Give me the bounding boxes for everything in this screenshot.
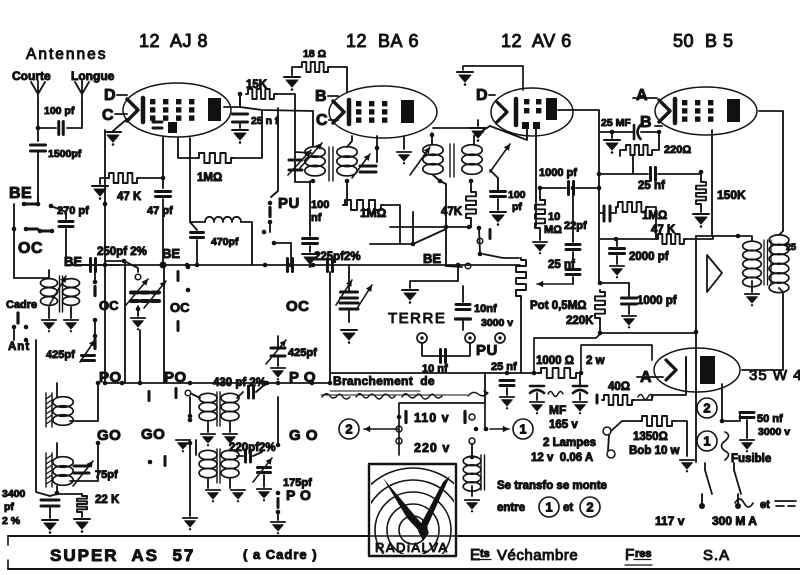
ground ecap2: [573, 402, 587, 414]
coil T2 primary: [423, 145, 443, 156]
svg-text:PU: PU: [278, 195, 300, 212]
coil MW primary: [199, 393, 217, 402]
wire cadre gnd1: [48, 307, 50, 318]
ground 425pf middle: [271, 368, 285, 380]
wire 25nf avc right: [658, 174, 701, 180]
wire 2000pf top: [616, 239, 618, 246]
junction PO bus 190: [188, 381, 193, 386]
wire 175pf down: [263, 475, 265, 487]
circled 2 selector: [339, 419, 359, 439]
contact r3: [93, 334, 98, 339]
contact BE3 b: [185, 263, 190, 268]
ground ecap1: [530, 402, 544, 414]
ground 3400pf: [42, 520, 58, 534]
svg-text:OC: OC: [170, 300, 190, 315]
capacitor 1000pf af: [622, 298, 637, 304]
contact open 110: [396, 426, 402, 432]
capacitor 25nf het: [500, 381, 514, 386]
contact bar r1: [93, 287, 96, 296]
ground V2 cathode: [397, 152, 411, 164]
wire x581 up and to V5: [581, 345, 652, 373]
svg-text:12 AV 6: 12 AV 6: [501, 31, 572, 51]
svg-text:MΩ: MΩ: [544, 224, 562, 236]
svg-text:SUPER AS 57: SUPER AS 57: [50, 546, 195, 565]
contact bar BE: [27, 203, 36, 206]
ground bottom left mid: [183, 518, 197, 530]
capacitor 220pf: [246, 450, 251, 462]
wire 270pf down to bus: [65, 229, 67, 265]
electrolytic filter 2: [573, 385, 587, 388]
contact bar r2: [93, 340, 96, 349]
junction det row b: [467, 225, 472, 230]
contact BE b: [36, 202, 41, 207]
wire coil left: [190, 208, 205, 222]
wire 47K link: [600, 238, 656, 240]
wire 1M left: [343, 204, 347, 206]
contact go a: [188, 418, 193, 423]
wire V3 diode to detector: [535, 129, 537, 226]
contact 110 d: [484, 427, 489, 432]
tube V1 12AJ8: [123, 83, 231, 137]
contact det top: [477, 226, 482, 231]
wire V1 to 1M: [178, 138, 197, 158]
resistor 1M AF: [343, 200, 383, 210]
wire pin C: [329, 119, 338, 121]
ground 175pf: [257, 489, 271, 501]
wire terre gnd to bus: [410, 267, 458, 288]
wire to 117v term: [701, 494, 703, 503]
wire 220pf right: [253, 452, 262, 456]
ground 150K: [693, 214, 709, 228]
coil OT secondary: [743, 241, 762, 251]
wire antLW right up: [70, 443, 98, 481]
wire po-go link: [189, 397, 191, 420]
contact open 220 a: [396, 438, 402, 444]
trimmer arrow gang b: [144, 281, 166, 308]
wire BE stub: [37, 196, 39, 204]
junction det row a: [444, 225, 449, 230]
contact OC a: [12, 227, 17, 232]
circled 1 right: [697, 431, 717, 451]
junction AVC: [411, 242, 416, 247]
ground top near V3: [457, 72, 473, 86]
svg-text:E: E: [470, 547, 480, 564]
wire 3400 gnd lead: [49, 508, 51, 518]
junction cathode node: [657, 130, 662, 135]
wire AVC rail: [370, 243, 413, 245]
contact bar po left: [148, 392, 151, 401]
wire bus x105 lower: [104, 204, 106, 383]
svg-text:Fusible: Fusible: [731, 453, 771, 465]
svg-text:MF: MF: [549, 403, 566, 417]
junction gang left: [122, 259, 127, 264]
RADIALVA logo box: [369, 464, 456, 556]
svg-text:1000 pf: 1000 pf: [637, 295, 677, 307]
title band bottom line: [8, 568, 800, 570]
wire V1 grid lead: [162, 137, 164, 188]
svg-text:47 K: 47 K: [117, 191, 142, 203]
underline Fres full: [625, 564, 652, 566]
wire PO row bus: [105, 382, 330, 384]
wire 40ohm right: [634, 395, 652, 400]
capacitor 225pf a: [288, 259, 293, 272]
wire contact to MW coil: [192, 394, 200, 398]
wire 22K top: [57, 493, 82, 495]
svg-text:Longue: Longue: [71, 69, 115, 83]
capacitor 3400pf: [41, 500, 59, 506]
svg-text:100 pf: 100 pf: [44, 105, 75, 117]
svg-text:300 M A: 300 M A: [712, 514, 757, 528]
ground OT secondary: [745, 294, 759, 306]
ground 100nf: [302, 254, 318, 268]
wire 1000pf af gnd: [628, 306, 630, 314]
svg-text:22 K: 22 K: [95, 494, 120, 506]
wire vertical x164: [163, 268, 165, 383]
resistor 47K af: [656, 234, 686, 244]
contact det bottom: [478, 252, 483, 257]
wire 25nf down: [572, 277, 574, 284]
wire left bus: [13, 204, 15, 278]
junction T1 bottom right: [345, 179, 350, 184]
junction AF out: [598, 331, 603, 336]
contact right b: [186, 288, 191, 293]
ground 22K: [74, 519, 90, 533]
wire T2 top to V2: [431, 133, 433, 145]
wire 1M right: [383, 205, 400, 244]
contact right a: [186, 265, 191, 270]
wire 100nf gnd lead: [309, 246, 311, 252]
trimmer arrow T2 primary: [410, 147, 430, 175]
contact PU c: [262, 230, 267, 235]
junction PO bus 312: [310, 381, 315, 386]
svg-text:PU: PU: [476, 342, 498, 359]
junction x105 BE: [103, 202, 108, 207]
label Bar squiggle: [638, 395, 653, 400]
wire 1350 right: [674, 421, 687, 456]
wire 50nf top lead: [740, 411, 747, 413]
circled 1 selector: [513, 419, 533, 439]
wire 10nf down: [462, 321, 464, 330]
junction fuse node: [720, 419, 725, 424]
wire to loop coil: [14, 277, 49, 279]
contact bar det: [489, 230, 492, 239]
junction 150K top: [699, 170, 704, 175]
junction det right: [597, 186, 602, 191]
junction 15K node: [238, 92, 243, 97]
capacitor 25nf det: [566, 270, 580, 275]
wire to PU switch: [274, 242, 291, 244]
svg-text:Ant: Ant: [8, 341, 30, 353]
wire avc cap lead: [599, 212, 604, 214]
contact ant: [24, 338, 29, 343]
contact bar right c: [177, 322, 180, 331]
circled 2 right: [697, 398, 717, 418]
capacitor gang 2: [340, 303, 358, 309]
underline res: [634, 559, 651, 561]
svg-text:40Ω: 40Ω: [608, 381, 630, 393]
svg-text:1MΩ: 1MΩ: [642, 210, 667, 222]
svg-text:BE: BE: [64, 254, 82, 269]
wire col down: [94, 320, 96, 334]
coil T1 secondary: [337, 147, 357, 158]
DC symbol: [775, 501, 796, 506]
capacitor 1500pf: [31, 145, 46, 151]
terminal TERRE: [417, 333, 427, 343]
contact PU b: [268, 220, 273, 225]
wire 220ohm lead to avc line: [632, 156, 634, 174]
resistor 15K: [246, 89, 276, 99]
svg-text:470pf: 470pf: [211, 236, 239, 248]
ground 100pf: [490, 212, 506, 226]
wire 47K right: [686, 236, 713, 239]
wire cathode to ground: [113, 119, 127, 131]
resistor 22K: [77, 494, 87, 514]
contact OC b: [24, 227, 29, 232]
coil autotransfo: [463, 456, 481, 465]
arrow to circled 2: [364, 428, 398, 430]
resistor 47K vertical: [466, 190, 476, 220]
wire anode line to IF1: [240, 107, 313, 111]
svg-text:B: B: [315, 88, 327, 105]
capacitor 25nf avc: [651, 168, 656, 181]
ground 18 ohm: [284, 77, 300, 91]
coil OT primary: [769, 235, 789, 245]
wire selector to bus: [484, 373, 486, 403]
contact 110 a: [397, 415, 402, 420]
capacitor gang 1: [341, 292, 358, 298]
capacitor 100pf: [59, 122, 64, 135]
wire det down: [539, 188, 541, 198]
wire terre-pu link: [422, 343, 470, 356]
wire 220 left down: [620, 150, 624, 156]
wire cap to coil: [190, 222, 197, 230]
resistor 40 ohm: [602, 395, 634, 405]
trimmer arrow cadre: [50, 276, 66, 304]
wire node down: [239, 94, 241, 107]
wire 100nf top: [309, 196, 311, 236]
wire 1500pf to BE contact: [37, 152, 39, 203]
tube V3 12AV6: [491, 88, 573, 136]
junction osc node: [161, 176, 166, 181]
svg-text:1350Ω: 1350Ω: [633, 431, 668, 443]
junction avc: [597, 172, 602, 177]
junction bus265 163: [161, 263, 166, 268]
contact bar right a: [177, 272, 180, 281]
wire T1 primary down: [309, 181, 311, 196]
svg-text:425pf: 425pf: [46, 349, 75, 361]
ground 2000pf: [610, 266, 624, 278]
resistor 1M avc: [616, 202, 648, 212]
wire V3 anode down: [558, 110, 599, 283]
wire V5 cathode down: [721, 384, 723, 420]
wire cap to ground: [239, 122, 241, 128]
svg-text:D: D: [476, 87, 488, 104]
svg-text:220Ω: 220Ω: [664, 144, 691, 156]
svg-text:10nf: 10nf: [474, 303, 497, 315]
contact bar 40ohm: [596, 395, 599, 403]
wire cadre gnd2: [70, 307, 72, 318]
wire right vertical bus lower: [695, 332, 697, 462]
contact go mid: [148, 460, 153, 465]
wire 18ohm to V2 grid: [330, 67, 347, 92]
wire to 50nf: [722, 412, 740, 421]
contact cadre a: [12, 325, 17, 330]
ground TERRE: [402, 290, 418, 304]
wire 250pf left: [66, 264, 88, 266]
svg-text:1000 Ω: 1000 Ω: [536, 355, 574, 367]
svg-text:100: 100: [311, 199, 329, 211]
junction gang bottom: [136, 307, 141, 312]
wire pin B lead: [655, 125, 662, 127]
wire 10nf up: [462, 286, 464, 302]
ground po4: [271, 522, 285, 534]
svg-text:F: F: [625, 547, 634, 564]
svg-text:OC: OC: [286, 298, 310, 315]
junction bus265 265: [263, 263, 268, 268]
junction 2000pf: [614, 237, 619, 242]
junction det: [538, 186, 543, 191]
junction PO bus 330: [328, 381, 333, 386]
wire AVC diagonal to det row: [413, 229, 446, 244]
capacitor 270pf: [59, 222, 73, 227]
svg-text:OC: OC: [18, 240, 43, 257]
svg-text:25 MF: 25 MF: [601, 117, 631, 129]
wire PU link to bus: [290, 243, 292, 265]
contact OC d: [50, 229, 55, 234]
ground 1350: [680, 460, 694, 472]
svg-text:S.A: S.A: [703, 547, 730, 564]
wire to junction: [38, 127, 56, 129]
ground under V1: [105, 132, 121, 146]
wire V2 cathode lead: [403, 136, 405, 149]
capacitor 430pf: [249, 386, 254, 398]
contact 110 c: [474, 427, 479, 432]
wire down to 1500pf: [37, 128, 39, 141]
capacitor 47pf: [156, 192, 171, 197]
capacitor 470pf: [191, 233, 204, 238]
svg-text:C: C: [316, 112, 328, 129]
svg-text:35 W 4: 35 W 4: [749, 367, 800, 384]
capacitor 425pf middle: [271, 348, 285, 356]
wire pin C: [115, 113, 127, 115]
wire 220K output to bus jog: [534, 333, 696, 373]
wire anode line to PU switch: [271, 108, 278, 197]
wire OT sec top: [738, 236, 752, 241]
wire gang top: [348, 265, 350, 290]
junction PO bus 105: [103, 381, 108, 386]
wire right po-go: [277, 397, 279, 445]
contact open po: [185, 390, 191, 396]
wire V1 lead to coil: [189, 138, 191, 208]
svg-text:12 BA 6: 12 BA 6: [346, 31, 419, 51]
capacitor 175pf: [258, 468, 271, 473]
wire 220 to node: [654, 145, 659, 150]
svg-text:pf: pf: [4, 501, 14, 513]
wire 1M right down: [648, 207, 656, 239]
svg-text:100: 100: [508, 189, 526, 201]
wire trimmer to 100pf: [490, 170, 498, 190]
resistor 220 ohm: [624, 145, 654, 155]
wire MW gnd2 lead: [229, 422, 231, 432]
wire to 300ma term: [737, 494, 739, 503]
svg-text:117 v: 117 v: [655, 514, 685, 528]
svg-text:425pf: 425pf: [288, 347, 317, 359]
coil LW primary: [199, 450, 217, 459]
contact open det: [477, 238, 483, 244]
wire primary gnd lead: [471, 486, 473, 496]
svg-text:25 n f: 25 n f: [251, 115, 279, 127]
coil LW secondary: [221, 450, 239, 459]
ground cadre 2: [64, 320, 78, 332]
contact open gang: [135, 274, 141, 280]
junction OT: [736, 234, 741, 239]
wire long grid bus y265: [66, 264, 520, 266]
wire LW gnd lead 1: [207, 479, 209, 488]
junction pot top: [598, 281, 603, 286]
capacitor 425pf left: [82, 356, 95, 361]
svg-text:2 w: 2 w: [586, 355, 605, 367]
wire 22pf top: [572, 188, 574, 242]
junction T1 bottom: [311, 179, 316, 184]
plate 3000v: [456, 317, 471, 320]
svg-text:47 K: 47 K: [651, 224, 676, 236]
antenna Longue symbol: [75, 81, 89, 102]
wire LW gnd lead 2: [229, 479, 231, 488]
wire antMW top: [56, 383, 58, 397]
underline ts: [479, 559, 491, 561]
terminal bar cadre: [16, 313, 19, 323]
coil cadre secondary: [63, 279, 80, 288]
wire cadre contacts down: [13, 327, 15, 340]
junction bus 291: [289, 263, 294, 268]
wire AVC vertical: [412, 212, 414, 244]
title band top line: [8, 535, 800, 537]
junction T2 bottom left: [438, 179, 443, 184]
svg-text:22pf: 22pf: [564, 220, 587, 232]
svg-text:Bob 10 w: Bob 10 w: [629, 445, 680, 457]
wire PU link: [269, 222, 271, 232]
circled 2 note: [580, 497, 600, 517]
ground autotransfo: [465, 500, 479, 512]
contact bar 110 b: [463, 412, 466, 423]
wire af link: [600, 282, 629, 284]
contact go c: [276, 443, 281, 448]
svg-text:nf: nf: [311, 212, 322, 224]
junction PU link: [272, 241, 277, 246]
contact BE a: [22, 202, 27, 207]
junction 25MF: [610, 130, 615, 135]
svg-text:res: res: [635, 548, 652, 560]
wire heater bus y373: [330, 372, 539, 374]
tube V1 extra internal electrodes: [168, 122, 177, 133]
wire V5 heater left: [652, 383, 686, 395]
capacitor 10nf lower: [441, 350, 446, 363]
coil T2 secondary: [462, 145, 482, 156]
resistor 1M osc: [197, 153, 233, 163]
svg-text:25 nf: 25 nf: [638, 180, 665, 192]
wire MW coil to 430pf: [237, 392, 243, 398]
contact cadre b: [24, 325, 29, 330]
wire coil right: [241, 222, 252, 240]
wire go down: [189, 443, 191, 516]
wire ecap2 top: [579, 373, 581, 386]
svg-text:pf: pf: [512, 201, 522, 213]
wire lamp to 1350: [611, 421, 640, 431]
crossed out handwriting l'autotransfo 220 volts: [322, 394, 442, 399]
capacitor 250pf: [91, 259, 96, 272]
svg-text:2: 2: [345, 422, 352, 437]
wire 47K to gnd: [100, 178, 107, 184]
